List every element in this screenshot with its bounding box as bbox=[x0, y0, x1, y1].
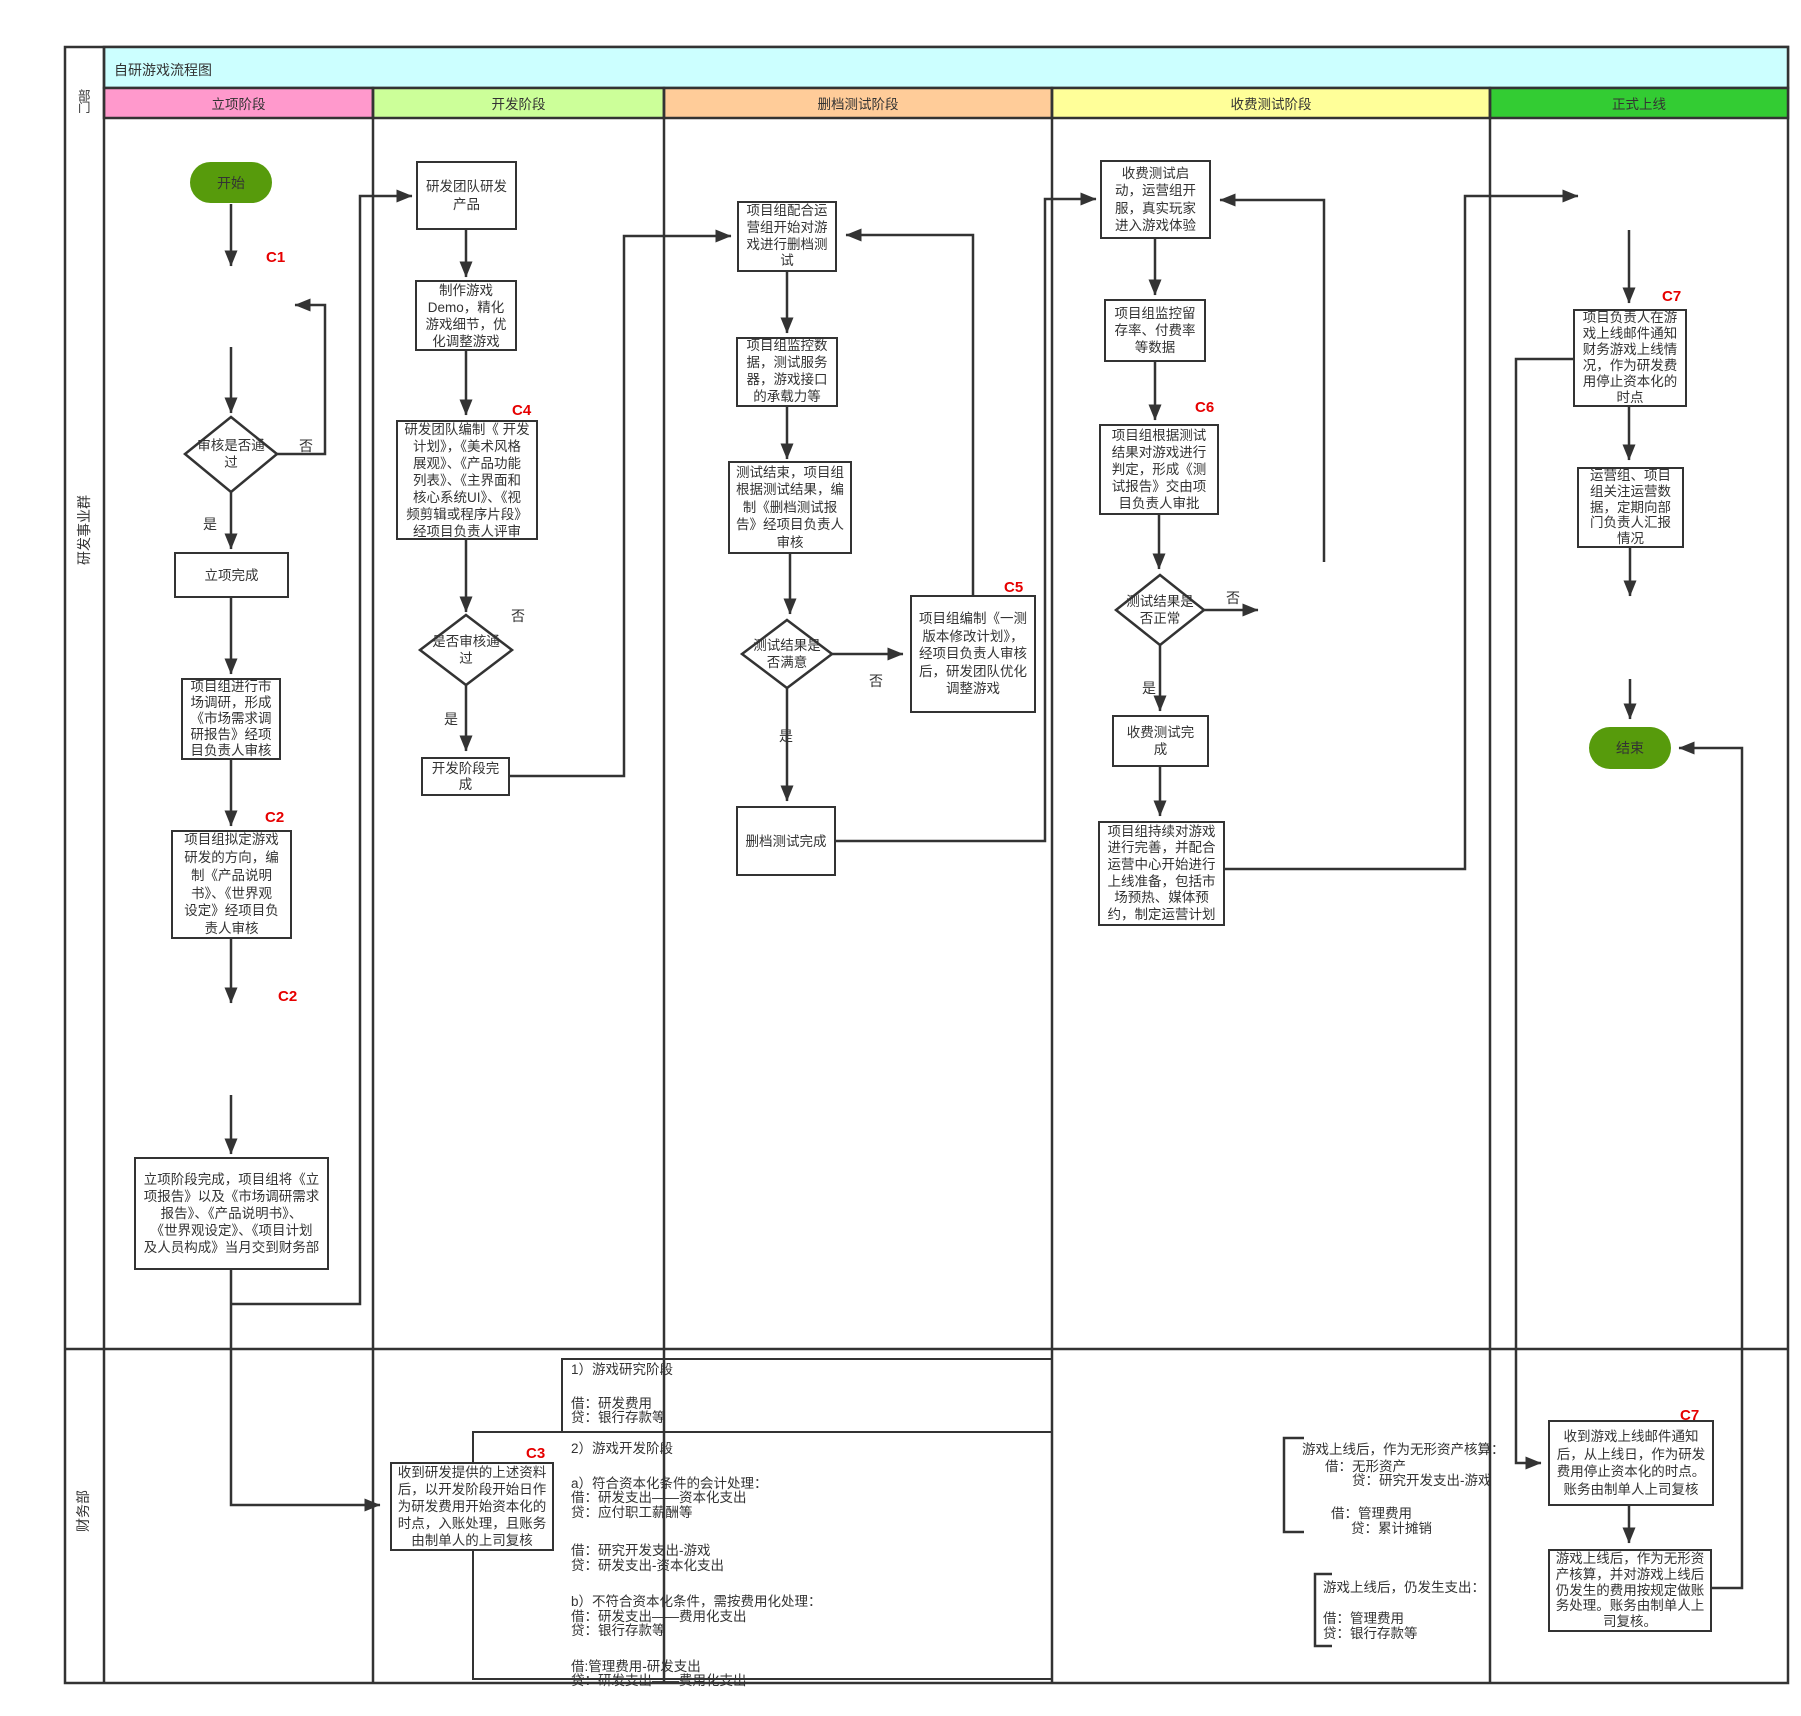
wire 财务 lower box to 结束 bbox=[1679, 748, 1742, 1588]
wire 收费box2 to C6 bbox=[1154, 362, 1157, 420]
wire 收费测试完成 to 项目组持续 bbox=[1159, 767, 1162, 816]
wire 财务C7 to 财务 lower box bbox=[1628, 1506, 1631, 1543]
lane divider 研发事业群/财务部 bbox=[65, 1348, 1788, 1351]
label C4 bbox=[512, 402, 531, 419]
label C2 (second) bbox=[278, 988, 297, 1005]
box 研发团队编制开发计划 bbox=[396, 420, 538, 540]
header cell 立项阶段 bbox=[104, 88, 373, 118]
text 游戏开发阶段 heading bbox=[571, 1437, 673, 1457]
diamond text 测试结果是否满意 bbox=[742, 620, 832, 688]
box 项目负责人邮件通知财务 bbox=[1573, 309, 1687, 407]
header cell 开发阶段 bbox=[373, 88, 664, 118]
text 无形资产核算 heading bbox=[1302, 1438, 1505, 1458]
box 立项完成 bbox=[174, 552, 289, 598]
wire 项目组持续 loop to 正式上线 bbox=[1225, 196, 1578, 869]
header label 删档测试阶段 bbox=[664, 88, 1052, 118]
label C5 bbox=[1004, 579, 1023, 596]
label 否 (测试结果是否满意) bbox=[869, 671, 883, 691]
text 贷研发支出资本化支出 bbox=[571, 1554, 724, 1574]
label 是 (是否审核通过) bbox=[444, 709, 458, 729]
wire 否 loop to 收费box1 bbox=[1220, 200, 1324, 562]
node 结束 bbox=[1589, 727, 1671, 769]
box 项目组监控数据 bbox=[736, 337, 838, 407]
label C2 bbox=[265, 809, 284, 826]
bracket 无形资产核算 bbox=[1284, 1438, 1304, 1532]
text 贷银行存款等3 bbox=[1323, 1622, 1418, 1642]
diamond 测试结果是否满意 bbox=[742, 620, 832, 688]
text 贷研发支出费用化支出 bbox=[571, 1669, 747, 1689]
box 项目组编制一测版本修改计划 bbox=[910, 595, 1036, 713]
wire C7 box to 财务C7 bbox=[1516, 359, 1573, 1463]
wire 否 arrow from 测试结果是否正常 bbox=[1204, 609, 1258, 612]
text 贷累计摊销 bbox=[1351, 1517, 1432, 1537]
box 测试结束编制删档测试报告 bbox=[728, 461, 852, 554]
box 删档测试完成 bbox=[736, 806, 836, 876]
label 是 (审核是否通过) bbox=[203, 514, 217, 534]
diamond text 测试结果是否正常 bbox=[1115, 576, 1205, 644]
wire 开发阶段完成 to 删档测试 box1 bbox=[510, 236, 731, 776]
text 贷银行存款等2 bbox=[571, 1619, 666, 1639]
text 仍发生支出 heading bbox=[1323, 1576, 1485, 1596]
wire 研发团队研发产品 to 制作Demo bbox=[465, 230, 468, 277]
text 游戏研究阶段 heading bbox=[571, 1358, 673, 1378]
box 研发团队研发产品 bbox=[416, 161, 517, 230]
title cell background bbox=[104, 47, 1788, 88]
label 否 (测试结果是否正常) bbox=[1226, 588, 1240, 608]
box 项目组拟定游戏研发方向 bbox=[171, 830, 292, 939]
wire C7 box to 运营组 box bbox=[1628, 407, 1631, 460]
label 是 (测试结果是否正常) bbox=[1142, 678, 1156, 698]
lane label 研发事业群 bbox=[74, 495, 94, 565]
text 借无形资产 bbox=[1325, 1455, 1406, 1475]
column divider 删档/收费 bbox=[1051, 88, 1054, 1683]
diamond 审核是否通过 bbox=[185, 417, 277, 492]
box 财务C3 收到研发资料 bbox=[390, 1462, 554, 1551]
wire 审核是否通过 to 立项完成 bbox=[230, 492, 233, 549]
text 借研发支出资本化支出 bbox=[571, 1486, 747, 1506]
wire 开始 to C1 bbox=[230, 204, 233, 266]
wire 删档box1 to 删档box2 bbox=[786, 272, 789, 333]
column divider 立项/开发 bbox=[372, 88, 375, 1683]
text 借管理费用2 bbox=[1323, 1607, 1404, 1627]
label 部门 bbox=[78, 90, 91, 114]
diamond 是否审核通过 bbox=[420, 615, 512, 685]
wire 立项阶段完成 to 财务C3 bbox=[231, 1270, 380, 1505]
box 项目组监控留存率 bbox=[1104, 299, 1206, 362]
text 贷银行存款等 bbox=[571, 1406, 666, 1426]
label 否 (审核是否通过) bbox=[299, 436, 313, 456]
wire 拟定方向 down (C2) bbox=[230, 939, 233, 1003]
accounting box 游戏开发阶段 bbox=[473, 1432, 1052, 1679]
header cell 收费测试阶段 bbox=[1052, 88, 1490, 118]
label C7 bbox=[1662, 288, 1681, 305]
wire C6 box to 测试结果是否正常 bbox=[1158, 515, 1161, 569]
wire C4 box to 是否审核通过 bbox=[465, 540, 468, 612]
text 贷应付职工薪酬等 bbox=[571, 1501, 693, 1521]
box 财务C7 收到游戏上线邮件 bbox=[1548, 1420, 1714, 1506]
header cell 删档测试阶段 bbox=[664, 88, 1052, 118]
text 贷研究开发支出游戏 bbox=[1352, 1469, 1492, 1489]
text 借研究开发支出游戏 bbox=[571, 1539, 711, 1559]
wire 删档box2 to 删档box3 bbox=[786, 407, 789, 459]
label C7 (finance) bbox=[1680, 1407, 1699, 1424]
lane label 财务部 bbox=[73, 1476, 93, 1546]
wire to 结束 bbox=[1629, 679, 1632, 719]
text 借研发支出费用化支出 bbox=[571, 1605, 747, 1625]
header label 收费测试阶段 bbox=[1052, 88, 1490, 118]
header cell 正式上线 bbox=[1490, 88, 1788, 118]
dept column divider bbox=[103, 47, 106, 1683]
wire C1 to 审核是否通过 bbox=[230, 347, 233, 413]
wire 是否审核通过 to 开发阶段完成 bbox=[465, 685, 468, 751]
wire 运营组 box down bbox=[1629, 548, 1632, 596]
box 项目组持续完善上线准备 bbox=[1098, 821, 1225, 926]
node 开始 bbox=[190, 162, 272, 203]
diamond text 是否审核通过 bbox=[421, 614, 511, 686]
title 自研游戏流程图 bbox=[114, 60, 212, 80]
wire 是 to 收费测试完成 bbox=[1159, 645, 1162, 711]
wire 市场调研 to 拟定方向 bbox=[230, 760, 233, 826]
text a符合资本化条件 bbox=[571, 1472, 768, 1492]
box 项目组根据测试结果判定 bbox=[1099, 424, 1219, 515]
wire C2 to 立项阶段完成 bbox=[230, 1095, 233, 1154]
box 开发阶段完成 bbox=[421, 757, 510, 796]
text 借管理费用研发支出 bbox=[571, 1655, 701, 1675]
label 否 (是否审核通过) bbox=[511, 606, 525, 626]
header label 正式上线 bbox=[1490, 88, 1788, 118]
wire 制作Demo to C4 bbox=[465, 351, 468, 415]
wire 否 to C5 box bbox=[832, 653, 903, 656]
header label 开发阶段 bbox=[373, 88, 664, 118]
box 项目组配合运营组删档测试 bbox=[737, 201, 837, 272]
label C3 bbox=[526, 1445, 545, 1462]
wire 立项完成 to 市场调研 bbox=[230, 598, 233, 674]
text 借研发费用 bbox=[571, 1392, 652, 1412]
box 项目组进行市场调研 bbox=[181, 678, 281, 760]
wire arrow into C7 box bbox=[1628, 230, 1631, 303]
label C1 bbox=[266, 249, 285, 266]
header label 立项阶段 bbox=[104, 88, 373, 118]
wire 删档box3 to 测试结果是否满意 bbox=[789, 554, 792, 614]
box 立项阶段完成交财务部 bbox=[134, 1157, 329, 1270]
wire 是 to 删档测试完成 bbox=[786, 688, 789, 801]
box 收费测试启动 bbox=[1100, 160, 1211, 239]
accounting box 游戏研究阶段 bbox=[562, 1359, 1052, 1432]
diamond 测试结果是否正常 bbox=[1116, 575, 1204, 645]
box 财务 无形资产核算处理 bbox=[1548, 1549, 1712, 1632]
column divider 收费/正式 bbox=[1489, 88, 1492, 1683]
label C6 bbox=[1195, 399, 1214, 416]
box 运营组项目组关注运营数据 bbox=[1577, 467, 1684, 548]
text b不符合资本化条件 bbox=[571, 1590, 822, 1610]
wire 否 loop from 审核是否通过 bbox=[277, 305, 325, 454]
label 是 (测试结果是否满意) bbox=[779, 726, 793, 746]
column divider 开发/删档 bbox=[663, 88, 666, 1683]
wire 收费box1 to 收费box2 bbox=[1154, 239, 1157, 295]
box 收费测试完成 bbox=[1112, 715, 1209, 767]
box 制作游戏Demo bbox=[415, 280, 517, 351]
bracket 仍发生支出 bbox=[1315, 1574, 1332, 1646]
wire branch to 研发团队研发产品 bbox=[231, 196, 412, 1304]
wire C5 loop to 删档box1 bbox=[846, 235, 973, 595]
text 借管理费用 bbox=[1331, 1502, 1412, 1522]
wire 删档测试完成 to 收费box1 bbox=[836, 199, 1096, 841]
diamond text 审核是否通过 bbox=[186, 418, 276, 490]
